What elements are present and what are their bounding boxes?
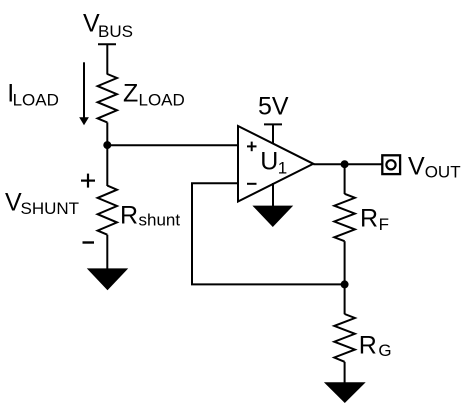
svg-text:LOAD: LOAD: [139, 91, 185, 110]
svg-text:V: V: [5, 189, 22, 217]
svg-text:R: R: [360, 204, 378, 232]
resistor RG: [334, 314, 355, 362]
op-amp plus sign: [247, 142, 257, 152]
label minus Vshunt polarity: [83, 241, 95, 243]
label RF: [360, 204, 389, 233]
op-amp U1 triangle: [238, 126, 313, 202]
svg-text:F: F: [379, 215, 389, 234]
current arrow ILOAD: [79, 62, 89, 125]
resistor RF: [334, 194, 355, 241]
label U1: [260, 148, 287, 178]
ground GND1: [87, 268, 128, 290]
node B junction dot: [341, 160, 349, 168]
wire node C to RG: [344, 284, 346, 314]
label ILOAD: [7, 79, 59, 109]
wire node B to RF: [344, 164, 346, 194]
wire op-amp output to VOUT terminal: [313, 163, 381, 165]
5V supply bar: [264, 123, 282, 125]
resistor Rshunt: [98, 186, 117, 235]
svg-text:shunt: shunt: [139, 210, 181, 229]
label VOUT: [408, 152, 461, 181]
svg-text:U: U: [260, 148, 278, 176]
wire op-amp bottom to ground: [272, 183, 274, 207]
wire 5V bar to op-amp top: [272, 124, 274, 144]
wire node A to op-amp noninverting input: [107, 144, 238, 146]
wire Rshunt to ground: [106, 235, 108, 270]
wire RF to node C: [344, 241, 346, 284]
label RG: [359, 331, 392, 360]
wire VBUS bar to ZLOAD: [106, 44, 108, 74]
label VBUS: [83, 10, 133, 41]
label ZLOAD: [123, 80, 185, 110]
svg-text:Z: Z: [123, 80, 138, 108]
svg-text:R: R: [359, 331, 377, 359]
svg-text:1: 1: [278, 158, 287, 177]
wire RG to ground: [344, 362, 346, 384]
ground GND3: [324, 382, 366, 403]
svg-text:BUS: BUS: [98, 22, 133, 41]
terminal VOUT square with circle: [382, 155, 400, 174]
svg-text:OUT: OUT: [425, 162, 461, 181]
svg-text:LOAD: LOAD: [13, 91, 59, 110]
node VBUS terminal bar: [98, 43, 116, 45]
label + Vshunt polarity: [81, 174, 95, 188]
feedback wire node C to inverting input: [192, 183, 345, 284]
node C junction dot: [341, 280, 349, 288]
svg-text:R: R: [120, 201, 138, 229]
svg-text:G: G: [378, 341, 391, 360]
op-amp minus sign: [247, 183, 257, 185]
node A junction dot: [103, 141, 111, 149]
svg-text:5V: 5V: [258, 93, 289, 121]
label VSHUNT: [5, 189, 79, 218]
label Rshunt: [120, 201, 180, 229]
svg-text:V: V: [408, 152, 425, 180]
wire ZLOAD to node A and down to Rshunt: [106, 122, 108, 186]
ground GND2: [252, 206, 293, 227]
svg-text:SHUNT: SHUNT: [21, 199, 80, 218]
resistor ZLOAD: [98, 74, 117, 122]
